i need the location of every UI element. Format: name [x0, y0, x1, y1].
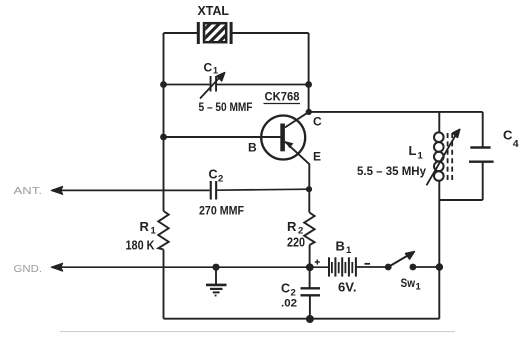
junction dot bottom — [306, 315, 314, 323]
wire base lead — [164, 136, 281, 138]
svg-text:B: B — [248, 141, 257, 155]
wire right vertical lower — [438, 200, 440, 319]
wire crystal top right — [232, 32, 309, 34]
crystal XTAL — [189, 20, 241, 45]
svg-text:C: C — [209, 168, 218, 182]
svg-text:.02: .02 — [281, 298, 297, 310]
svg-text:L: L — [409, 143, 417, 158]
wire emitter vertical — [308, 165, 310, 213]
svg-text:1: 1 — [346, 245, 352, 256]
capacitor C1 (variable) — [200, 73, 225, 99]
junction dot switch right — [436, 263, 443, 270]
svg-text:GND.: GND. — [14, 263, 43, 275]
junction dot battery left — [306, 263, 314, 271]
capacitor C4 — [469, 148, 494, 162]
wire battery to switch — [357, 266, 389, 268]
svg-text:1: 1 — [418, 151, 424, 162]
transistor Q1 CK768 — [261, 112, 310, 165]
svg-text:270 MMF: 270 MMF — [199, 204, 244, 218]
capacitor C3 (.02) — [301, 288, 321, 295]
wire left vertical lower — [163, 250, 165, 319]
wire below C3 to bottom — [309, 296, 311, 320]
svg-text:R: R — [140, 219, 150, 234]
svg-text:C: C — [503, 128, 513, 143]
wire collector to tank — [309, 111, 483, 113]
wire switch to right vertical — [413, 266, 440, 268]
inductor L1 — [434, 132, 444, 180]
L1 tuning arrow — [427, 129, 460, 185]
junction dot emitter row — [306, 186, 312, 192]
svg-text:180 K: 180 K — [126, 239, 155, 253]
scan artifact line — [60, 331, 455, 333]
svg-text:C: C — [313, 115, 322, 129]
capacitor C2 270MMF — [210, 181, 218, 200]
wire GND row — [58, 266, 329, 268]
wire emitter below R2 — [309, 245, 311, 288]
switch Sw1 — [385, 252, 416, 271]
junction dot C1 right — [305, 81, 312, 88]
wire bottom row — [164, 318, 440, 320]
svg-text:C: C — [281, 282, 290, 296]
battery B1 — [328, 257, 357, 276]
junction dot collector — [306, 109, 312, 115]
wire C1 row right — [217, 84, 309, 86]
wire left vertical upper — [163, 33, 165, 211]
wire right vertical top — [308, 33, 310, 112]
svg-text:ANT.: ANT. — [14, 185, 43, 197]
svg-text:E: E — [313, 150, 321, 164]
wire L1 top drop — [438, 112, 440, 133]
wire C1 row left — [164, 84, 210, 86]
resistor R1 — [158, 211, 168, 250]
wire C4 top drop — [482, 112, 484, 147]
svg-text:CK768: CK768 — [265, 92, 301, 104]
svg-text:220: 220 — [287, 236, 305, 250]
svg-text:1: 1 — [416, 282, 422, 293]
wire ANT row — [58, 189, 309, 190]
resistor R2 — [304, 213, 314, 246]
label minus — [365, 263, 371, 265]
junction dot base — [160, 134, 167, 141]
wire C4 bottom — [482, 162, 484, 200]
junction dot C1 left — [160, 81, 167, 88]
wire tank bottom — [439, 199, 482, 201]
svg-text:6V.: 6V. — [338, 280, 357, 295]
terminal ANT arrow — [51, 187, 62, 195]
wire crystal top left — [164, 32, 198, 34]
svg-text:Sw: Sw — [401, 276, 416, 290]
svg-text:1: 1 — [151, 226, 157, 237]
svg-text:C: C — [204, 61, 213, 75]
L1 core dashed lines — [448, 133, 453, 181]
svg-text:2: 2 — [218, 174, 223, 185]
terminal GND arrow — [51, 263, 62, 271]
svg-text:5.5 – 35 MHy: 5.5 – 35 MHy — [357, 164, 426, 178]
label plus — [315, 260, 320, 265]
wire L1 bottom — [438, 181, 440, 200]
svg-text:5 – 50 MMF: 5 – 50 MMF — [199, 100, 253, 114]
svg-text:1: 1 — [213, 66, 218, 76]
svg-text:4: 4 — [513, 138, 519, 150]
svg-text:XTAL: XTAL — [198, 4, 230, 18]
ground symbol — [206, 264, 227, 296]
svg-text:B: B — [336, 239, 345, 254]
svg-text:R: R — [287, 219, 297, 234]
